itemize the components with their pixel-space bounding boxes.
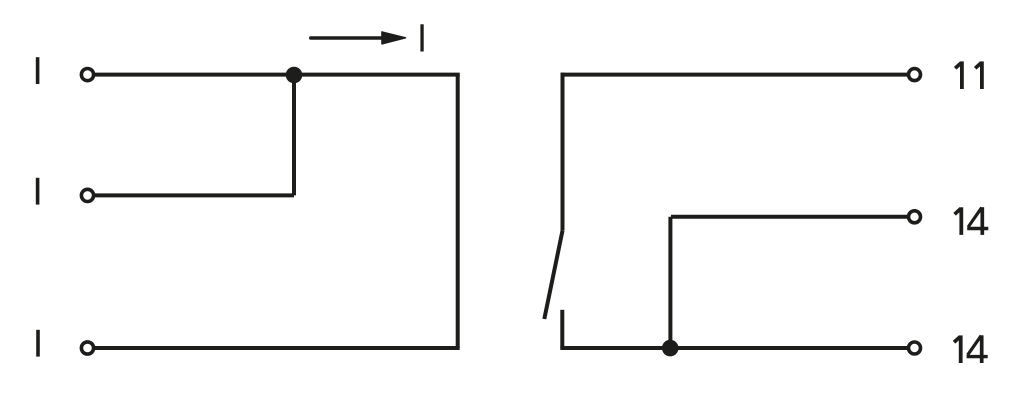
label I row 2 — [36, 178, 40, 205]
current arrow head — [382, 32, 406, 44]
label 11 — [955, 61, 982, 89]
terminal circle I1 — [81, 69, 93, 81]
label 14 bottom — [954, 335, 988, 363]
wire: top-right horizontal to terminal 11 — [561, 73, 915, 77]
label I at arrow — [420, 24, 423, 51]
wire: switch upper vertical — [561, 73, 565, 231]
junction B (solder dot) — [662, 340, 679, 357]
current arrow shaft — [311, 36, 383, 40]
label I row 1 — [36, 57, 40, 84]
wire: bottom-right horizontal to terminal 14b — [560, 346, 914, 350]
wire: switch lower stub — [560, 310, 564, 348]
label I row 3 — [36, 330, 40, 357]
wire: left block right-side vertical — [456, 75, 460, 348]
terminal circle 11 — [909, 69, 921, 81]
wire: top-left horizontal from terminal I1 — [95, 73, 460, 77]
wire: riser from junction B up to middle wire — [668, 217, 672, 348]
switch blade (moving contact, open) — [544, 231, 562, 319]
label 14 middle — [955, 207, 989, 235]
wire: middle-right horizontal to terminal 14a — [671, 215, 915, 219]
terminal circle I3 — [81, 342, 93, 354]
terminal circle 14a — [909, 211, 921, 223]
terminal circle 14b — [909, 342, 921, 354]
wire: bottom-left horizontal from terminal I3 — [95, 346, 460, 350]
wire: middle-left horizontal from terminal I2 — [95, 193, 294, 197]
wire: riser from I2 wire up to junction A — [292, 75, 296, 196]
junction A (solder dot) — [286, 67, 303, 84]
terminal circle I2 — [81, 189, 93, 201]
